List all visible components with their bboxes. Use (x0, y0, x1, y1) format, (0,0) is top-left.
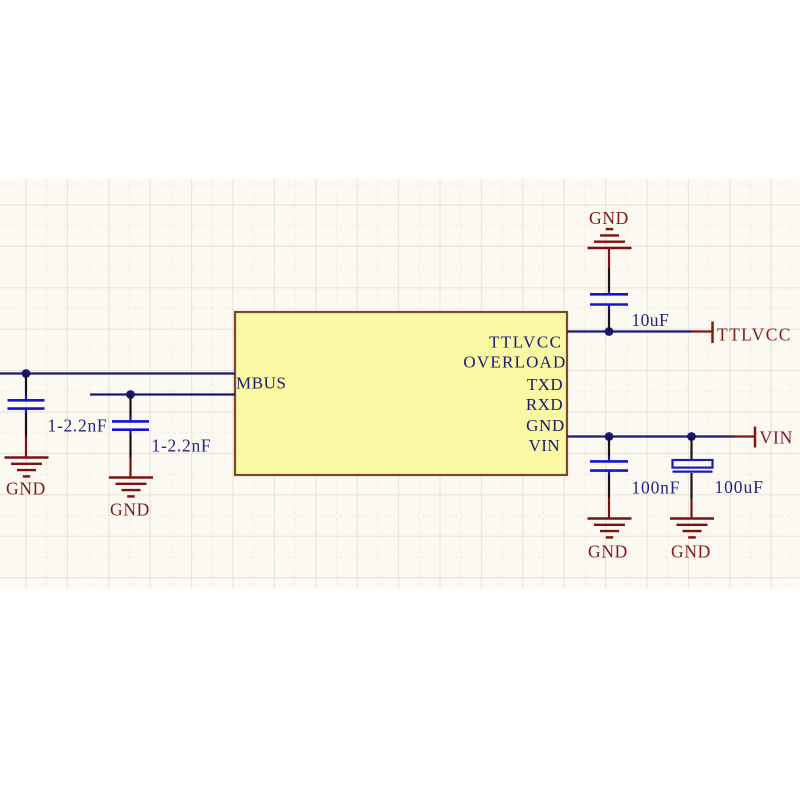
IC U1 body (235, 312, 567, 475)
pin name TXD (527, 375, 563, 394)
svg-text:RXD: RXD (526, 395, 563, 414)
svg-text:1-2.2nF: 1-2.2nF (48, 416, 108, 436)
power lead GND below C4 (608, 498, 610, 519)
label GND (C4) (588, 542, 628, 562)
capacitor C3 10uF (590, 268, 628, 332)
svg-text:TTLVCC: TTLVCC (717, 325, 792, 345)
label GND (above C3) (589, 208, 629, 228)
svg-text:GND: GND (110, 500, 150, 520)
svg-text:MBUS: MBUS (236, 374, 287, 393)
wire TTLVCC net (567, 330, 692, 332)
svg-text:GND: GND (671, 542, 711, 562)
svg-text:GND: GND (589, 208, 629, 228)
ground below C1 (5, 458, 49, 477)
pin name TTLVCC (489, 333, 563, 352)
power lead GND C2 (129, 458, 131, 478)
pin name GND (526, 416, 565, 435)
capacitor C4 100nF (590, 437, 628, 498)
capacitor C2 1-2.2nF (112, 395, 149, 458)
svg-text:TXD: TXD (527, 375, 563, 394)
value label 1-2.2nF (C2) (152, 436, 212, 456)
value label 10uF (632, 310, 670, 330)
ground below C5 (670, 519, 714, 538)
junction at C2 (126, 390, 135, 399)
junction at C3 (605, 327, 614, 336)
pin name MBUS (236, 374, 287, 393)
ground below C2 (109, 478, 153, 497)
svg-text:VIN: VIN (529, 436, 560, 455)
svg-text:OVERLOAD: OVERLOAD (463, 353, 566, 372)
svg-text:VIN: VIN (760, 428, 794, 448)
svg-text:GND: GND (588, 542, 628, 562)
power port VIN (734, 427, 793, 448)
power lead GND below C5 (690, 499, 692, 519)
ground below C4 (588, 519, 632, 538)
wire MBUS pin stub (90, 393, 235, 395)
label GND (C1) (6, 479, 46, 499)
value label 100uF (715, 477, 764, 497)
label GND (C5) (671, 542, 711, 562)
wire VIN net (567, 435, 734, 437)
svg-text:100nF: 100nF (632, 478, 681, 498)
capacitor C1 1-2.2nF (8, 374, 45, 437)
power port TTLVCC (692, 322, 792, 345)
wire MBUS net top (0, 372, 235, 374)
svg-text:TTLVCC: TTLVCC (489, 333, 563, 352)
pin name VIN (529, 436, 560, 455)
power lead GND above C3 (608, 248, 610, 268)
value label 100nF (632, 478, 681, 498)
svg-text:1-2.2nF: 1-2.2nF (152, 436, 212, 456)
svg-text:100uF: 100uF (715, 477, 764, 497)
capacitor C5 100uF polarized (673, 437, 713, 500)
pin name OVERLOAD (463, 353, 566, 372)
svg-text:10uF: 10uF (632, 310, 670, 330)
ground above C3 (588, 229, 632, 248)
label GND (C2) (110, 500, 150, 520)
junction at C1 (22, 369, 31, 378)
svg-text:GND: GND (6, 479, 46, 499)
power lead GND C1 (25, 437, 27, 458)
junction at C5 (687, 432, 696, 441)
value label 1-2.2nF (C1) (48, 416, 108, 436)
pin name RXD (526, 395, 563, 414)
svg-text:GND: GND (526, 416, 565, 435)
junction at C4 (605, 432, 614, 441)
